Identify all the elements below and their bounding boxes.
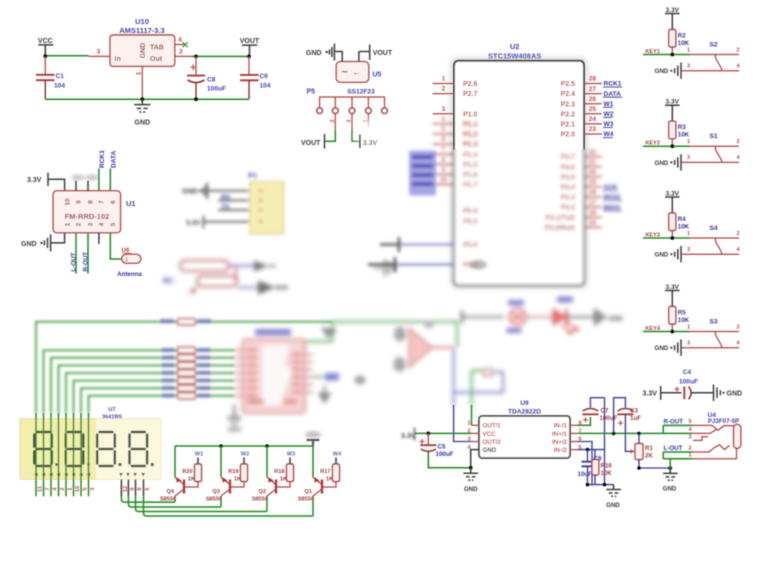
wire piezo to LED — [526, 316, 553, 318]
svg-text:6: 6 — [145, 487, 151, 490]
pin 25 stub — [584, 113, 602, 115]
svg-text:S3: S3 — [709, 319, 717, 326]
svg-text:U2: U2 — [510, 42, 520, 51]
junction — [670, 53, 674, 57]
wire display pin 2 — [58, 413, 60, 496]
svg-text:2: 2 — [736, 139, 739, 145]
ground symbol — [606, 485, 621, 497]
svg-text:P1.1: P1.1 — [463, 122, 478, 129]
svg-text:P2.1: P2.1 — [561, 122, 576, 129]
svg-text:5: 5 — [82, 487, 88, 490]
collector wire — [267, 489, 276, 498]
piezo component — [509, 309, 526, 326]
jack ring contact — [693, 445, 730, 452]
audio amplifier U9 TDA2822D — [401, 398, 692, 509]
resistor (segment series 2) — [178, 347, 196, 353]
piezo label blobs — [508, 300, 524, 306]
pin 21 stub — [584, 166, 602, 168]
feedback component — [484, 369, 493, 376]
svg-text:DATA: DATA — [111, 150, 118, 168]
chip right pin stub — [305, 369, 313, 371]
svg-text:R3: R3 — [678, 124, 686, 131]
capacitor C3 — [618, 409, 634, 412]
pin 7 stub — [433, 153, 454, 155]
capacitor C7 (polarized) — [583, 409, 599, 412]
svg-text:100uF: 100uF — [436, 451, 454, 458]
pin 27 stub — [584, 93, 602, 95]
svg-text:L-OUT: L-OUT — [70, 252, 77, 271]
svg-text:P3.2: P3.2 — [561, 205, 576, 212]
svg-text:Q2: Q2 — [259, 489, 266, 495]
digit driver transistors — [160, 431, 342, 516]
op-amp output wire — [432, 346, 453, 348]
svg-text:1: 1 — [259, 189, 265, 192]
key circuit KEY1 — [643, 7, 740, 79]
wire OUT/2 to op-amp — [454, 405, 472, 442]
base bar — [183, 480, 185, 494]
wire chip to top bus — [305, 322, 332, 342]
svg-text:8: 8 — [88, 200, 95, 204]
pin 22 stub — [584, 156, 602, 158]
pin 8 stub — [570, 424, 578, 426]
svg-text:P3.5: P3.5 — [561, 174, 576, 181]
wire 3.3V to pin 4 — [204, 221, 250, 223]
pin 1 lead to ground — [141, 66, 143, 99]
ground symbol (sideways) — [714, 385, 721, 402]
P5 pin circles — [317, 108, 323, 114]
svg-text:GND: GND — [306, 50, 322, 57]
chip left pin stub — [234, 395, 242, 397]
svg-text:3.3V: 3.3V — [643, 391, 658, 398]
svg-text:4: 4 — [736, 340, 740, 346]
U2 body shadow halo — [452, 59, 586, 287]
ground symbol — [463, 468, 478, 480]
wire segment net bus 3 — [51, 358, 234, 413]
svg-text:RCK1: RCK1 — [604, 81, 622, 88]
chip title blob — [255, 329, 291, 336]
wire VCC to pin 3 — [45, 55, 88, 57]
wire display pin 5 — [80, 413, 82, 496]
chip right pin stub — [305, 384, 313, 386]
wire GND to U5 — [334, 52, 342, 62]
ground symbol GND — [134, 99, 150, 112]
svg-text:P1.2: P1.2 — [463, 132, 478, 139]
svg-text:S8550: S8550 — [252, 497, 268, 503]
chip right pin stub — [305, 361, 313, 363]
svg-text:2: 2 — [76, 222, 83, 226]
svg-text:R4: R4 — [678, 216, 686, 223]
svg-text:1: 1 — [687, 139, 690, 145]
wire segment net bus 6 — [74, 381, 235, 413]
svg-text:MOSI: MOSI — [604, 194, 621, 201]
svg-text:4: 4 — [736, 155, 740, 161]
wire pin8 to C7 — [578, 417, 591, 425]
svg-text:7: 7 — [45, 487, 51, 490]
resistor R1 — [635, 444, 643, 460]
svg-text:P5.4: P5.4 — [463, 208, 478, 215]
resistor lead — [671, 324, 673, 332]
wire pin 6 DATA — [109, 169, 111, 191]
svg-text:VOUT: VOUT — [301, 140, 321, 147]
LED D1 — [553, 309, 566, 325]
svg-text:4: 4 — [688, 427, 692, 433]
svg-text:10: 10 — [440, 177, 447, 184]
connector body P1 — [250, 182, 284, 234]
svg-text:4: 4 — [178, 37, 182, 44]
svg-text:P1.7: P1.7 — [463, 182, 478, 189]
svg-text:1: 1 — [67, 487, 73, 490]
svg-text:5: 5 — [110, 222, 117, 226]
svg-text:R1: R1 — [645, 445, 653, 452]
svg-text:GND: GND — [608, 316, 623, 323]
svg-text:3.3V: 3.3V — [186, 220, 201, 227]
wire digit common 9 — [128, 496, 221, 507]
feedback loop wires — [454, 372, 503, 392]
svg-text:C5: C5 — [438, 444, 446, 451]
pin 4 stub (TAB) — [175, 44, 185, 46]
transistor Q1 S8550 — [298, 446, 342, 516]
wire pin6 down — [578, 442, 593, 485]
resistor (segment series 8) — [178, 393, 196, 399]
wire OUT1 vertical — [472, 371, 484, 407]
svg-text:104: 104 — [54, 83, 65, 90]
pin 28 stub — [584, 83, 602, 85]
collector wire — [313, 489, 322, 498]
wire pin 1 to ground — [51, 233, 65, 243]
svg-text:1: 1 — [467, 421, 470, 427]
svg-text:3: 3 — [97, 49, 101, 56]
svg-text:P5: P5 — [307, 89, 316, 96]
svg-text:5: 5 — [442, 126, 446, 133]
svg-text:U9: U9 — [520, 400, 529, 407]
power flag 3.3V — [401, 428, 416, 441]
svg-text:6: 6 — [442, 136, 446, 143]
svg-text:25: 25 — [589, 106, 596, 113]
transistor Q3 S8550 — [206, 446, 249, 507]
capacitor C6 — [248, 56, 250, 74]
resistor lead — [671, 139, 673, 147]
svg-text:2: 2 — [179, 49, 183, 56]
svg-text:10K: 10K — [678, 132, 690, 139]
svg-text:10K: 10K — [601, 470, 613, 477]
svg-text:17: 17 — [589, 199, 596, 206]
svg-text:P1: P1 — [248, 171, 257, 180]
chip left pin stub — [234, 364, 242, 366]
voltage regulator circuit: U10 AMS1117-3.3 — [36, 17, 271, 127]
chip right pin stub — [305, 376, 313, 378]
coil link — [190, 266, 236, 292]
svg-text:OUT/1: OUT/1 — [483, 423, 502, 430]
jack contact 4 — [692, 429, 717, 433]
svg-text:Out: Out — [150, 56, 163, 63]
ground symbol (left facing) — [326, 51, 328, 53]
base bar — [229, 480, 231, 494]
svg-text:P1.4: P1.4 — [463, 152, 478, 159]
resistor R17 — [333, 464, 340, 482]
svg-text:1K: 1K — [234, 477, 241, 483]
wire display pin 4 — [50, 413, 52, 496]
svg-text:U5: U5 — [373, 72, 382, 79]
pin 16 stub — [584, 216, 602, 218]
wire KEY3 net — [643, 237, 690, 239]
wire pin 2 L-OUT — [75, 233, 77, 274]
svg-text:4: 4 — [442, 116, 446, 123]
chip left pin stub — [234, 357, 242, 359]
op body U10 box — [110, 35, 175, 66]
svg-text:P1.0: P1.0 — [463, 111, 478, 118]
svg-text:P3.3: P3.3 — [561, 195, 576, 202]
pin 2 stub (Out) — [175, 55, 191, 57]
pin 18 stub — [584, 196, 602, 198]
svg-text:3: 3 — [687, 247, 690, 253]
resistor R16 — [592, 460, 599, 476]
display pin 9 stub — [127, 479, 129, 496]
svg-text:11: 11 — [37, 486, 43, 492]
resistor R4 — [669, 213, 676, 231]
chip left pin stub — [234, 349, 242, 351]
svg-text:1: 1 — [442, 76, 446, 83]
svg-text:7: 7 — [442, 146, 446, 153]
port symbol TXD wire — [395, 264, 454, 266]
wire to DS label — [313, 376, 324, 378]
svg-text:~: ~ — [342, 67, 349, 79]
antenna U6 body — [122, 254, 141, 263]
wire top bus to op-amp — [332, 322, 457, 348]
svg-text:1: 1 — [687, 47, 690, 53]
pin 8 stub — [87, 181, 89, 191]
wire segment net bus 4 — [59, 365, 235, 413]
resistor R19 — [241, 464, 248, 482]
wire digit common 8 — [136, 496, 268, 511]
svg-text:6: 6 — [110, 200, 117, 204]
pin 23 stub — [584, 133, 602, 135]
wire segment net bus 2 — [44, 350, 235, 413]
pin 4 stub — [433, 123, 454, 125]
svg-text:8: 8 — [137, 487, 143, 490]
svg-text:10K: 10K — [678, 40, 690, 47]
svg-text:C8: C8 — [207, 77, 216, 84]
microcontroller U2 STC15W408AS — [433, 42, 622, 287]
middle driver block (blurred) — [36, 319, 332, 413]
switch body U5 — [336, 62, 368, 83]
transistor Q4 S8550 — [160, 446, 203, 503]
svg-text:SS12F23: SS12F23 — [347, 89, 375, 96]
buzzer coil lower loop — [197, 276, 237, 287]
net label blob — [325, 373, 339, 381]
svg-text:FM-RRD-102: FM-RRD-102 — [65, 212, 110, 221]
connector P5 bracket — [320, 97, 385, 108]
resistor R3 — [669, 121, 676, 139]
wire digit common 6 — [144, 496, 314, 516]
svg-text:VOUT: VOUT — [373, 50, 393, 57]
svg-text:3: 3 — [687, 63, 690, 69]
svg-text:Q3: Q3 — [213, 489, 220, 495]
base lead — [231, 482, 244, 488]
svg-text:R18: R18 — [274, 469, 284, 475]
junction at GND node — [140, 97, 144, 101]
key circuit KEY2 — [643, 99, 740, 171]
svg-text:VCC: VCC — [38, 38, 53, 45]
wire R-OUT to pin 5 — [663, 425, 693, 433]
svg-text:IN-/2: IN-/2 — [554, 447, 568, 454]
emitter supply bus — [175, 445, 313, 447]
svg-text:GND: GND — [727, 391, 743, 398]
svg-text:GND: GND — [655, 252, 669, 259]
svg-text:P1.3: P1.3 — [463, 142, 478, 149]
svg-text:U7: U7 — [108, 407, 115, 413]
svg-text:3: 3 — [442, 106, 446, 113]
resistor (segment series, top) — [178, 319, 196, 325]
svg-text:R19: R19 — [228, 469, 238, 475]
resistor lead — [671, 47, 673, 55]
pin 3 stub — [89, 55, 110, 57]
junction C8 at ground bus — [194, 97, 198, 101]
wire op-amp to OUT2 (navy) — [453, 347, 455, 406]
wire to arrow 2 — [237, 287, 258, 289]
pin 5 stub — [433, 133, 454, 135]
svg-text:P2.5: P2.5 — [561, 81, 576, 88]
pin 1 stub — [472, 424, 480, 426]
junction at VOUT node — [247, 55, 251, 59]
wire 3.3V to pin 10 — [48, 179, 65, 191]
chip inner white — [262, 345, 292, 405]
svg-text:2: 2 — [736, 231, 739, 237]
svg-text:4: 4 — [736, 247, 740, 253]
svg-text:1K: 1K — [188, 477, 195, 483]
svg-text:3: 3 — [688, 435, 691, 441]
ground symbol — [670, 70, 672, 72]
base lead — [277, 482, 290, 488]
svg-text:2: 2 — [259, 199, 265, 202]
svg-text:GND: GND — [21, 241, 37, 248]
svg-text:10: 10 — [64, 198, 71, 206]
svg-text:IN-/1: IN-/1 — [554, 423, 568, 430]
arrow blob 2 — [258, 281, 275, 295]
base net stub — [197, 458, 199, 465]
junction — [670, 236, 674, 240]
svg-text:1: 1 — [688, 453, 691, 459]
svg-text:W1: W1 — [604, 101, 614, 108]
wire segment net bus 7 — [81, 388, 234, 413]
svg-text:TDA2822D: TDA2822D — [508, 409, 541, 416]
jack sleeve lead — [693, 448, 737, 459]
svg-text:W4: W4 — [333, 452, 342, 458]
svg-text:10K: 10K — [678, 224, 690, 231]
svg-text:100uF: 100uF — [679, 379, 698, 386]
jack sleeve body — [734, 424, 741, 448]
pin 2 stub — [433, 93, 454, 95]
svg-text:C3: C3 — [630, 408, 638, 415]
wire segment net bus 5 — [66, 373, 234, 413]
wire C4 to ground — [692, 392, 714, 394]
svg-text:IN+/2: IN+/2 — [552, 439, 568, 446]
pin 6 stub — [570, 441, 578, 443]
svg-text:P2.3: P2.3 — [561, 101, 576, 108]
wire display pin 10 — [73, 413, 75, 496]
svg-text:2: 2 — [688, 446, 691, 452]
key circuit KEY4 — [643, 284, 740, 356]
svg-text:Antenna: Antenna — [117, 271, 142, 278]
wire 3.3V to VCC pin — [415, 432, 472, 434]
svg-text:R2: R2 — [678, 33, 686, 40]
emitter wire — [174, 446, 176, 478]
pin 4 stub — [98, 233, 100, 244]
wire segment net bus 8 — [89, 396, 235, 413]
transistor Q2 S8550 — [252, 446, 295, 512]
svg-text:GND: GND — [483, 447, 497, 454]
svg-text:1K: 1K — [280, 477, 287, 483]
wire pin1 stub — [367, 114, 369, 127]
slide switch block U5 / P5 SS12F23 — [301, 44, 403, 149]
svg-text:23: 23 — [589, 126, 596, 133]
svg-text:1: 1 — [64, 222, 71, 226]
wire digit common 12 — [121, 496, 175, 502]
erased label blur above pin 9 — [71, 175, 85, 181]
svg-text:3: 3 — [90, 487, 96, 490]
svg-text:28: 28 — [589, 76, 596, 83]
pin 8 stub — [433, 163, 454, 165]
svg-text:3.3V: 3.3V — [401, 433, 416, 440]
svg-text:3: 3 — [88, 222, 95, 226]
svg-text:BC: BC — [163, 276, 174, 285]
decimal points — [55, 463, 58, 466]
jack contact 3 — [693, 437, 708, 441]
ground symbol (sideways) — [596, 309, 604, 325]
svg-text:IN+/1: IN+/1 — [552, 431, 568, 438]
svg-text:P1.6: P1.6 — [463, 172, 478, 179]
key circuit KEY3 — [643, 191, 740, 263]
chip right pin stub — [305, 354, 313, 356]
bottom navy bus to ground — [588, 484, 614, 486]
capacitor C3 loop — [614, 398, 626, 434]
svg-text:GND: GND — [655, 68, 669, 75]
svg-text:C4: C4 — [683, 369, 692, 376]
wire pin3 to 3.3V — [351, 114, 353, 130]
op-amp triangle — [409, 328, 432, 367]
svg-text:1K: 1K — [326, 477, 333, 483]
wire to piezo — [462, 316, 504, 318]
svg-text:AMS1117-3.3: AMS1117-3.3 — [119, 26, 164, 35]
svg-text:GND: GND — [464, 486, 478, 493]
long navy vertical (C7 net) — [604, 398, 606, 485]
svg-text:20: 20 — [589, 169, 596, 176]
wire pin 3 R-OUT — [87, 233, 89, 274]
pin 3 stub — [433, 113, 454, 115]
power bar 3.3V — [307, 440, 320, 446]
svg-text:4: 4 — [52, 487, 58, 491]
wire segment net bus 1 — [36, 322, 332, 413]
svg-text:22: 22 — [589, 149, 596, 156]
ground symbol — [670, 347, 672, 349]
module body U1 — [53, 191, 120, 233]
wire KEY2 net — [643, 145, 690, 147]
base lead — [185, 482, 198, 488]
pin 6 stub — [433, 143, 454, 145]
svg-text:P2.7: P2.7 — [463, 91, 478, 98]
svg-text:10K: 10K — [678, 317, 690, 324]
svg-text:7: 7 — [99, 200, 106, 204]
display pin 6 stub — [143, 479, 145, 496]
no-connect flag X — [183, 42, 188, 47]
svg-text:16: 16 — [589, 209, 596, 216]
svg-text:8: 8 — [442, 156, 446, 163]
svg-text:15: 15 — [589, 220, 596, 227]
svg-text:100uF: 100uF — [207, 86, 226, 93]
digit 1 segments — [34, 432, 52, 466]
svg-text:18: 18 — [589, 189, 596, 196]
wire pin2 to VOUT — [334, 114, 336, 130]
7-segment display U7 3641BS — [20, 407, 313, 516]
